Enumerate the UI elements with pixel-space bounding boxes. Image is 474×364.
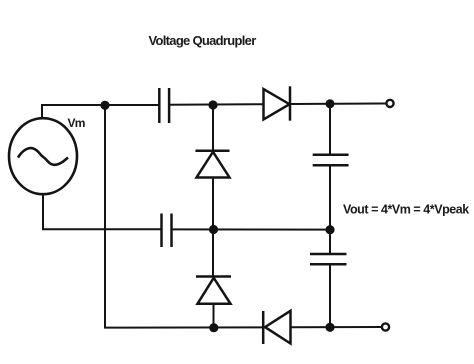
wire source bottom lead + middle wire to C2 bbox=[43, 196, 162, 230]
node C junction dot bbox=[209, 225, 218, 234]
svg-text:Vout = 4*Vm = 4*Vpeak: Vout = 4*Vm = 4*Vpeak bbox=[343, 203, 469, 217]
node D junction dot bbox=[325, 225, 334, 234]
diode D3 bbox=[263, 311, 290, 344]
wire source top lead bbox=[41, 105, 43, 118]
terminal bottom output bbox=[382, 323, 389, 330]
wire D2 to node C bbox=[212, 178, 214, 230]
terminal top output bbox=[386, 100, 393, 107]
capacitor C1 bbox=[159, 88, 169, 123]
wire C3 to node D bbox=[329, 165, 331, 229]
wire D1 to top terminal bbox=[290, 103, 386, 106]
node bottom-right junction dot bbox=[325, 323, 334, 332]
diode D1 bbox=[264, 86, 291, 120]
node B junction dot bbox=[208, 100, 217, 109]
node bottom-mid junction dot bbox=[209, 323, 218, 332]
svg-text:Voltage Quadrupler: Voltage Quadrupler bbox=[149, 33, 257, 48]
wire C2 to node D bbox=[172, 228, 331, 230]
wire D3 to bottom terminal bbox=[291, 326, 386, 328]
capacitor C2 bbox=[162, 214, 172, 248]
node A junction dot bbox=[100, 101, 109, 110]
wire D4 to bottom wire bbox=[213, 304, 215, 328]
capacitor C3 bbox=[313, 155, 349, 166]
wire node D to C4 bbox=[329, 230, 331, 254]
capacitor C4 bbox=[310, 254, 347, 264]
wire bottom left segment bbox=[104, 326, 264, 328]
wire C4 to bottom node bbox=[329, 264, 331, 327]
AC source V1 bbox=[9, 118, 77, 194]
wire C1 to D1 bbox=[169, 103, 263, 106]
diode D2 bbox=[195, 151, 229, 178]
wire top left segment bbox=[41, 104, 159, 106]
node top-right junction dot bbox=[326, 99, 335, 108]
wire left vertical from node A down to bottom wire bbox=[104, 105, 106, 328]
svg-text:Vm: Vm bbox=[68, 116, 85, 130]
wire node B to D2 bbox=[212, 105, 214, 151]
wire node C to D4 bbox=[212, 230, 214, 277]
diode D4 bbox=[196, 277, 231, 304]
wire top node to C3 bbox=[329, 104, 331, 155]
